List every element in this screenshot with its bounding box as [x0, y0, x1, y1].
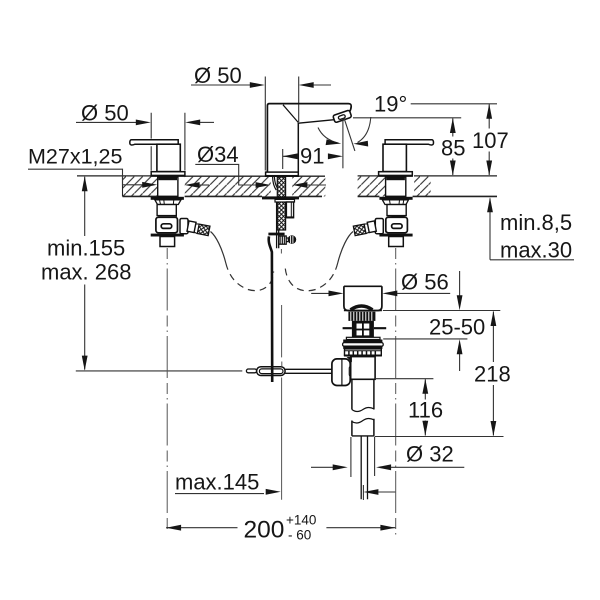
reference line spout top level [411, 103, 497, 105]
drain flange Ø56 [343, 343, 384, 347]
extension lines Ø50 spout [265, 77, 298, 171]
svg-text:- 60: - 60 [288, 528, 311, 543]
left valve outlet hex nut [180, 219, 188, 234]
drain seal band lower [343, 346, 382, 349]
svg-text:19°: 19° [374, 92, 407, 117]
drain seal band upper [343, 340, 382, 343]
svg-text:200: 200 [244, 517, 285, 544]
svg-text:Ø 50: Ø 50 [81, 101, 129, 126]
left flexible hose solid part [211, 232, 226, 264]
left handle taper ring [155, 200, 181, 205]
right handle axis chain line down to 200-dim [395, 248, 397, 538]
spout shank collar [275, 199, 295, 202]
dimension Ø50 spout leader line and arrows [191, 84, 251, 86]
svg-text:107: 107 [472, 128, 509, 153]
svg-text:min.155: min.155 [47, 236, 125, 261]
svg-text:85: 85 [441, 136, 465, 161]
drain castellated ring [345, 349, 382, 355]
left handle valve cylinder [157, 205, 176, 216]
right valve outlet tube [353, 221, 376, 236]
left valve slot [161, 224, 172, 229]
faucet axis chain line [280, 249, 282, 500]
left flexible hose dashed part [226, 263, 274, 291]
deck left edge [122, 176, 124, 196]
drain tee left shoulder fillet [347, 357, 352, 362]
right handle lever [385, 140, 433, 145]
drain bottom line of plug section [344, 310, 382, 312]
countertop deck right slab hatch [358, 176, 431, 196]
svg-text:Ø34: Ø34 [197, 142, 239, 167]
svg-text:25-50: 25-50 [429, 315, 485, 340]
left handle valve block [156, 217, 178, 233]
svg-text:91: 91 [300, 144, 324, 169]
right flexible hose dashed part [285, 263, 338, 291]
svg-text:Ø 32: Ø 32 [406, 442, 454, 467]
19 degree arc left with arrow [318, 128, 339, 144]
spout side hose stub cylinder [286, 202, 293, 218]
leader Ø34 underline and drop [195, 164, 256, 185]
right handle escutcheon [379, 172, 413, 176]
svg-text:Ø 50: Ø 50 [194, 63, 242, 88]
pop-up rod end cap [246, 369, 256, 373]
svg-text:max.145: max.145 [175, 470, 259, 495]
left valve bottom flange [151, 234, 184, 237]
drain tailpipe upper [352, 379, 374, 409]
spout pull-rod tube [277, 202, 279, 248]
deck top surface line [77, 175, 497, 177]
right handle valve block [386, 217, 408, 233]
Ø34 arrow at left-handle hole right edge [185, 182, 200, 188]
spout front vertical edge diagonal [283, 105, 298, 123]
19 degree vertical reference line [342, 119, 344, 169]
drain flange small [346, 337, 380, 339]
Ø34 arrows at spout hole [256, 182, 271, 188]
svg-text:M27x1,25: M27x1,25 [28, 145, 122, 169]
drain stem pin [343, 327, 387, 329]
spout body outline [267, 104, 351, 172]
pop-up rod coupling nut on drain tee [332, 359, 350, 386]
svg-text:max. 268: max. 268 [41, 260, 132, 285]
right handle valve cylinder [387, 205, 406, 216]
pull-rod clamp bar [268, 233, 284, 236]
svg-text:+140: +140 [286, 513, 316, 528]
spout hose thick drop line [269, 236, 272, 382]
spout braided shank [277, 177, 285, 230]
drain tee body [351, 357, 375, 380]
spout shank hose curves in deck hole [273, 177, 278, 190]
drain tailpipe lower [352, 419, 374, 436]
countertop deck left slab hatch [123, 176, 326, 196]
right handle locknut [379, 197, 412, 200]
spout shank locknut [262, 196, 299, 199]
spout column right edge [297, 123, 299, 172]
svg-text:min.8,5: min.8,5 [500, 210, 572, 235]
right valve tailpiece [389, 237, 404, 247]
19 degree arc right with arrow [358, 117, 371, 143]
right valve slot [392, 224, 403, 229]
left handle knob body [157, 144, 180, 171]
drain knurled crown [348, 312, 375, 321]
extension lines Ø50 left [151, 113, 185, 171]
drain plug cylinder [344, 286, 382, 310]
svg-text:max.30: max.30 [500, 238, 572, 263]
pop-up horizontal rod [285, 369, 332, 373]
deck bottom line [123, 195, 498, 197]
left valve outlet tube [187, 221, 210, 236]
left handle axis chain line down to 200-dim [166, 248, 168, 532]
left handle lever [130, 140, 178, 145]
svg-text:218: 218 [474, 362, 511, 387]
dimension Ø50 left leader line and arrows [76, 121, 137, 123]
left handle locknut [151, 197, 184, 200]
spout underside line [298, 120, 334, 124]
pipe break squiggle [352, 407, 374, 411]
svg-text:116: 116 [408, 398, 443, 423]
spout aerator [333, 110, 352, 123]
right flexible hose solid part [338, 232, 353, 264]
pull-rod ball knob [286, 238, 288, 242]
drain plug dome [351, 306, 373, 310]
right valve bottom flange [379, 234, 412, 237]
svg-text:Ø 56: Ø 56 [401, 270, 449, 295]
pop-up rod clevis link [257, 367, 286, 376]
right valve outlet hex nut [375, 219, 383, 234]
right handle knob body [383, 144, 406, 171]
drain stem with windows [352, 321, 374, 337]
19 degree axis slanted line [344, 119, 355, 151]
left handle escutcheon [151, 172, 185, 176]
inner thin pipe [361, 437, 367, 500]
reference line at pop-up rod level [76, 370, 243, 372]
pull-rod ribbed adjuster [279, 236, 286, 244]
left valve tailpiece [160, 237, 175, 247]
spout escutcheon [266, 172, 299, 176]
left handle shank in deck hole [158, 177, 178, 196]
right handle shank in deck hole [386, 177, 406, 196]
right handle taper ring [382, 200, 408, 205]
leader M27x1,25 [28, 169, 143, 185]
reference line aerator level [353, 117, 461, 119]
